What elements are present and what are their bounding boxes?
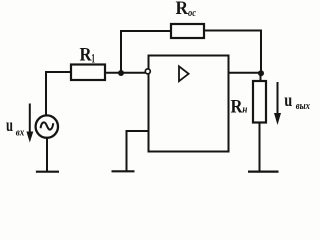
wire non-inverting input <box>127 131 149 171</box>
label Roc <box>176 0 197 19</box>
label u_vx <box>6 115 25 139</box>
source u_vx circle <box>36 115 58 137</box>
svg-text:u: u <box>284 90 292 110</box>
label u_vyh <box>284 90 310 112</box>
op-amp triangle symbol <box>179 66 189 81</box>
wire R1 to op-amp input <box>105 72 145 74</box>
op-amp inverting input circle <box>145 69 150 74</box>
svg-text:вых: вых <box>296 100 311 112</box>
label Rn <box>231 96 248 117</box>
svg-text:u: u <box>6 115 13 135</box>
svg-text:R: R <box>231 96 243 117</box>
svg-text:н: н <box>242 104 247 116</box>
ground (op-amp + input) <box>112 170 135 172</box>
wire source bottom <box>46 138 48 172</box>
resistor R1 <box>71 65 105 81</box>
resistor Roc <box>171 24 204 38</box>
wire node B down to Rn <box>260 73 262 81</box>
output arrow u_vyh <box>274 82 281 125</box>
input arrow u_vx <box>26 104 33 143</box>
ground (source) <box>36 171 59 173</box>
resistor Rn <box>253 81 266 123</box>
wire feedback left: node A up and right to Roc <box>121 31 171 73</box>
ground (load) <box>248 171 279 173</box>
wire source to R1 <box>45 71 71 73</box>
svg-text:ос: ос <box>188 7 196 19</box>
node A junction dot <box>118 70 124 76</box>
wire feedback right: Roc to output node down <box>204 31 261 74</box>
op-amp U1 body <box>149 56 229 152</box>
wire source top <box>45 71 47 116</box>
wire op-amp output to node B <box>229 72 261 74</box>
svg-text:R: R <box>176 0 189 19</box>
svg-text:вх: вх <box>16 127 25 139</box>
svg-text:1: 1 <box>91 50 95 65</box>
label R1 <box>80 44 96 65</box>
svg-text:R: R <box>80 44 92 65</box>
node B junction dot <box>258 70 264 76</box>
source sine symbol <box>41 122 54 129</box>
wire Rn to ground <box>259 123 261 172</box>
